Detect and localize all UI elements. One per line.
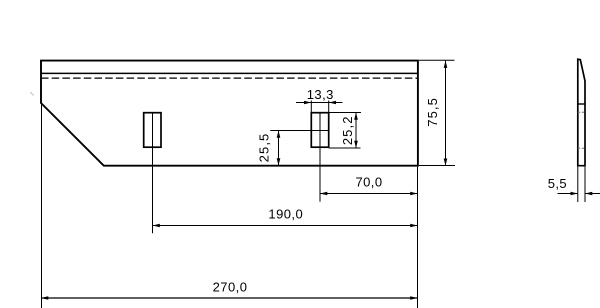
extension line right edge (for 70 / 190 / 270)	[417, 167, 419, 308]
svg-text:75,5: 75,5	[425, 97, 440, 127]
slot 1 centerline / extension for 190,0	[152, 113, 154, 234]
dimension 25,5 (slot center to bottom edge)	[257, 131, 329, 166]
dimension 5,5 (plate thickness)	[548, 167, 600, 202]
svg-text:25,5: 25,5	[257, 133, 272, 163]
svg-text:270,0: 270,0	[213, 279, 248, 294]
side view hidden line (slot bottom)	[578, 147, 585, 149]
slot 2 centerline / extension for 70,0	[319, 113, 321, 202]
dimension 190,0 (slot 1 center to right edge)	[153, 206, 418, 227]
side view edge line (solid)	[578, 103, 585, 105]
part outline (front view of knife plate)	[41, 61, 418, 166]
svg-text:5,5: 5,5	[548, 176, 567, 191]
side view profile (right)	[578, 59, 585, 166]
sharpened edge line (solid, below top edge)	[41, 72, 418, 74]
svg-text:25,2: 25,2	[340, 115, 355, 145]
slot 1 (left rectangular hole)	[144, 113, 161, 148]
chamfer overshoot mark (faint)	[30, 92, 33, 96]
extension line left edge (for 270)	[41, 103, 43, 308]
svg-text:70,0: 70,0	[355, 175, 382, 190]
side view hidden line (slot top)	[578, 111, 585, 113]
svg-text:190,0: 190,0	[268, 206, 303, 221]
dimension 70,0 (slot 2 center to right edge)	[320, 175, 418, 196]
slot 2 (right rectangular hole)	[311, 113, 328, 148]
dimension 13,3 (slot width)	[296, 87, 343, 113]
dimension 270,0 (overall length)	[41, 279, 418, 300]
dimension 25,2 (slot height)	[329, 113, 361, 149]
dimension 75,5 (plate height, right side)	[419, 60, 455, 166]
hidden bevel line (dashed)	[41, 77, 418, 79]
svg-text:13,3: 13,3	[307, 87, 334, 102]
